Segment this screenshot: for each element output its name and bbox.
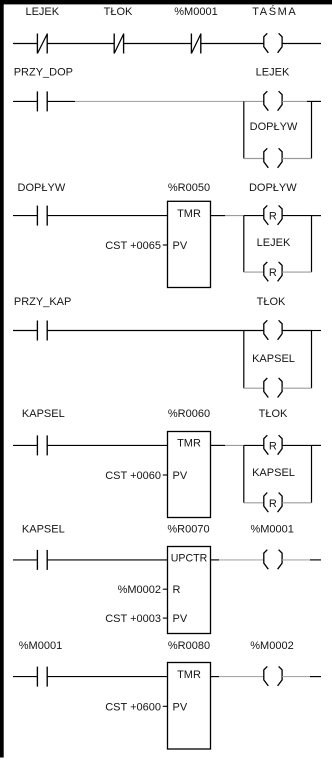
svg-text:TAŚMA: TAŚMA — [252, 5, 297, 18]
wire rung 7 contact to timer box — [47, 676, 167, 678]
rung 2 label LEJEK — [256, 67, 290, 79]
branch label KAPSEL rung 5 — [252, 467, 295, 479]
wire rung 5 left rail to contact KAPSEL — [13, 444, 37, 446]
svg-text:KAPSEL: KAPSEL — [22, 408, 65, 420]
wire rung 3 box to branch (black part) — [211, 215, 226, 217]
rung 1 label LEJEK — [25, 6, 59, 18]
branch left vertical rung 2 — [243, 101, 245, 158]
wire rung 1 coil TAŚMA to right end — [282, 43, 321, 45]
svg-text:TŁOK: TŁOK — [259, 408, 288, 420]
svg-text:TŁOK: TŁOK — [257, 296, 286, 308]
wire rung 3 left rail to contact DOPŁYW — [13, 215, 37, 217]
svg-text:TŁOK: TŁOK — [104, 6, 133, 18]
timer box TMR %R0060 — [168, 432, 211, 518]
svg-text:TMR: TMR — [177, 438, 201, 450]
svg-text:PRZY_DOP: PRZY_DOP — [14, 67, 73, 79]
branch left vertical rung 3 — [243, 216, 245, 273]
wire rung 7 coil to end (grey part) — [282, 676, 310, 678]
rung 3 label %R0050 — [168, 182, 210, 194]
rung 1 label TAŚMA — [252, 5, 297, 18]
wire rung 7 left rail to contact %M0001 — [13, 676, 37, 678]
branch left vertical rung 5 — [243, 445, 245, 502]
wire rung 2 branch left to coil LEJEK — [244, 100, 264, 102]
svg-text:%M0001: %M0001 — [19, 640, 62, 652]
rung 3 label DOPŁYW (output) — [249, 182, 297, 194]
svg-text:%R0070: %R0070 — [167, 524, 209, 536]
svg-text:KAPSEL: KAPSEL — [252, 353, 295, 365]
wire rung 6 contact to counter box — [47, 559, 167, 561]
timer PV input tick — [163, 244, 168, 246]
wire rung 1 contact %M0001 to coil TAŚMA — [201, 43, 264, 45]
counter preset value CST +0003 — [105, 613, 161, 625]
counter UPCTR label — [171, 553, 208, 565]
NO contact %M0001 — [37, 667, 47, 687]
wire rung 6 box to coil (grey part) — [219, 559, 264, 561]
svg-text:PV: PV — [173, 470, 188, 482]
wire rung 6 box to coil (black part) — [211, 559, 220, 561]
NO contact DOPŁYW — [37, 206, 47, 226]
svg-text:PV: PV — [173, 701, 188, 713]
rung 1 label %M0001 — [174, 6, 217, 18]
rung 7 label %M0001 — [19, 640, 62, 652]
svg-text:KAPSEL: KAPSEL — [22, 524, 65, 536]
counter R input tick — [163, 588, 168, 590]
rung 6 label %M0001 (output) — [250, 524, 293, 536]
coil LEJEK — [264, 91, 282, 111]
rung 6 label %R0070 — [167, 524, 209, 536]
rung 2 label PRZY_DOP — [14, 67, 73, 79]
svg-text:LEJEK: LEJEK — [25, 6, 59, 18]
timer TMR label rung 5 — [177, 438, 201, 450]
svg-text:PV: PV — [173, 613, 188, 625]
wire rung 5 branch bottom right — [282, 502, 311, 504]
svg-text:TMR: TMR — [177, 669, 201, 681]
wire rung 3 branch bottom right — [282, 271, 311, 273]
svg-text:CST +0065: CST +0065 — [105, 240, 161, 252]
timer PV input tick rung 7 — [163, 705, 168, 707]
wire rung 1 contact LEJEK to contact TŁOK — [47, 43, 114, 45]
wire rung 1 left rail to contact LEJEK — [13, 43, 37, 45]
coil DOPŁYW — [264, 148, 282, 168]
svg-text:%M0001: %M0001 — [250, 524, 293, 536]
wire rung 4 branch bottom right — [282, 387, 311, 389]
rung 4 label TŁOK — [257, 296, 286, 308]
rung 1 label TŁOK — [104, 6, 133, 18]
wire rung 4 contact to branch — [47, 330, 244, 332]
svg-text:R: R — [269, 211, 277, 223]
NO contact PRZY_KAP — [37, 321, 47, 341]
branch right vertical rung 2 — [311, 101, 313, 158]
svg-text:%M0001: %M0001 — [174, 6, 217, 18]
coil KAPSEL — [264, 378, 282, 398]
wire rung 4 branch right to end — [312, 330, 322, 332]
wire rung 2 branch bottom left — [244, 158, 264, 160]
coil %M0001 — [264, 550, 282, 570]
wire rung 6 coil to end (grey part) — [282, 559, 310, 561]
wire rung 2 branch right to end — [307, 100, 321, 102]
timer box TMR %R0080 — [168, 663, 211, 750]
NC contact %M0001 — [191, 34, 200, 54]
wire rung 2 branch bottom right — [282, 158, 311, 160]
NC contact LEJEK — [37, 34, 47, 54]
wire rung 2 contact to branch (black part) — [47, 100, 75, 102]
wire rung 2 left rail to contact PRZY_DOP — [13, 100, 37, 102]
wire rung 3 reset coil to branch right — [282, 215, 311, 217]
wire rung 2 coil LEJEK to branch right — [282, 100, 307, 102]
wire rung 3 box to branch (grey part) — [225, 215, 244, 217]
wire rung 6 coil to end (black part) — [310, 559, 321, 561]
coil TŁOK — [264, 320, 282, 340]
svg-text:CST +0600: CST +0600 — [105, 701, 161, 713]
counter PV input tick — [163, 617, 168, 619]
wire rung 4 branch bottom left — [244, 387, 264, 389]
svg-text:LEJEK: LEJEK — [256, 67, 290, 79]
wire rung 7 coil to end (black part) — [310, 676, 321, 678]
svg-text:R: R — [269, 440, 277, 452]
rung 7 label %M0002 (output) — [250, 640, 293, 652]
wire rung 3 branch bottom left — [244, 271, 264, 273]
wire rung 2 contact to branch (grey part) — [75, 100, 244, 102]
timer TMR label — [177, 208, 201, 220]
branch label KAPSEL — [252, 353, 295, 365]
svg-text:R: R — [173, 584, 181, 596]
timer PV pin label rung 5 — [173, 470, 188, 482]
wire rung 5 contact to timer box — [47, 444, 167, 446]
NO contact KAPSEL rung 6 — [37, 550, 47, 570]
svg-text:PV: PV — [173, 240, 188, 252]
counter PV pin label — [173, 613, 188, 625]
wire rung 6 left rail to contact KAPSEL — [13, 559, 37, 561]
svg-text:R: R — [269, 498, 277, 510]
timer PV pin label — [173, 240, 188, 252]
svg-text:UPCTR: UPCTR — [171, 553, 208, 565]
branch right vertical rung 4 — [311, 331, 313, 389]
rung 7 label %R0080 — [168, 640, 210, 652]
rung 5 label TŁOK (output) — [259, 408, 288, 420]
svg-text:R: R — [269, 267, 277, 279]
wire rung 1 contact TŁOK to contact %M0001 — [124, 43, 192, 45]
timer PV pin label rung 7 — [173, 701, 188, 713]
branch label DOPŁYW — [250, 121, 298, 133]
svg-text:KAPSEL: KAPSEL — [252, 467, 295, 479]
wire rung 3 contact to timer box — [47, 215, 167, 217]
timer box TMR %R0050 — [168, 201, 211, 287]
counter reset operand %M0002 — [118, 584, 161, 596]
rung 5 label %R0060 — [168, 408, 210, 420]
svg-text:LEJEK: LEJEK — [257, 237, 291, 249]
wire rung 4 branch left to coil TŁOK — [244, 330, 264, 332]
svg-text:DOPŁYW: DOPŁYW — [18, 182, 66, 194]
wire rung 5 branch right to end — [312, 444, 322, 446]
reset coil (R) DOPŁYW — [264, 205, 282, 225]
NC contact TŁOK — [114, 34, 123, 54]
svg-text:CST +0060: CST +0060 — [105, 470, 161, 482]
svg-text:%M0002: %M0002 — [118, 584, 161, 596]
svg-text:CST +0003: CST +0003 — [105, 613, 161, 625]
wire rung 4 left rail to contact PRZY_KAP — [13, 330, 37, 332]
timer PV input tick rung 5 — [163, 474, 168, 476]
rung 6 label KAPSEL — [22, 524, 65, 536]
wire rung 3 branch right to end — [312, 215, 322, 217]
branch label LEJEK — [257, 237, 291, 249]
coil TAŚMA — [264, 33, 282, 53]
timer preset value CST +0065 — [105, 240, 161, 252]
reset coil (R) KAPSEL — [264, 493, 282, 512]
timer TMR label rung 7 — [177, 669, 201, 681]
NO contact PRZY_DOP — [37, 91, 47, 111]
wire rung 7 box to coil (black part) — [211, 676, 220, 678]
wire rung 5 box to branch (grey part) — [225, 444, 244, 446]
svg-text:%M0002: %M0002 — [250, 640, 293, 652]
wire rung 5 reset coil to branch right — [282, 444, 311, 446]
rung 4 label PRZY_KAP — [14, 296, 71, 308]
branch left vertical rung 4 — [243, 331, 245, 389]
counter R pin label — [173, 584, 181, 596]
svg-text:DOPŁYW: DOPŁYW — [250, 121, 298, 133]
svg-text:%R0080: %R0080 — [168, 640, 210, 652]
reset coil (R) LEJEK — [264, 262, 282, 282]
reset coil (R) TŁOK — [264, 435, 282, 455]
NO contact KAPSEL — [37, 435, 47, 455]
coil %M0002 — [264, 666, 282, 686]
wire rung 4 coil TŁOK to branch right — [282, 330, 311, 332]
counter box UPCTR %R0070 — [168, 547, 211, 634]
wire rung 5 branch left to reset coil — [244, 444, 264, 446]
svg-text:TMR: TMR — [177, 208, 201, 220]
timer preset value CST +0600 — [105, 701, 161, 713]
timer preset value CST +0060 — [105, 470, 161, 482]
svg-text:PRZY_KAP: PRZY_KAP — [14, 296, 71, 308]
branch right vertical rung 5 — [311, 445, 313, 502]
rung 5 label KAPSEL — [22, 408, 65, 420]
branch right vertical rung 3 — [311, 216, 313, 273]
wire rung 3 branch left to reset coil — [244, 215, 264, 217]
rung 3 label DOPŁYW — [18, 182, 66, 194]
wire rung 7 box to coil (grey part) — [219, 676, 264, 678]
wire rung 5 box to branch (black part) — [211, 444, 226, 446]
svg-text:%R0050: %R0050 — [168, 182, 210, 194]
svg-text:%R0060: %R0060 — [168, 408, 210, 420]
svg-text:DOPŁYW: DOPŁYW — [249, 182, 297, 194]
wire rung 5 branch bottom left — [244, 502, 264, 504]
